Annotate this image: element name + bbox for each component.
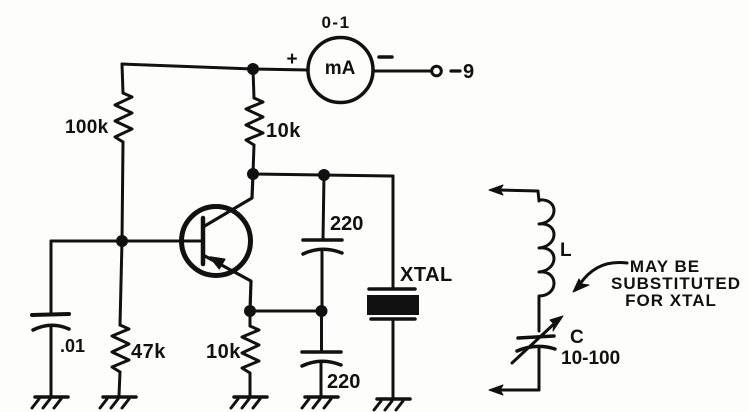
svg-text:47k: 47k — [131, 341, 166, 363]
svg-text:10k: 10k — [206, 341, 241, 363]
svg-text:9: 9 — [463, 61, 474, 83]
node junction base — [116, 235, 128, 247]
ground G1 — [32, 397, 68, 408]
wire tank top lead with arrow — [489, 185, 539, 201]
svg-text:FOR XTAL: FOR XTAL — [625, 291, 717, 310]
capacitor C3 220 (bottom) — [302, 311, 341, 396]
svg-text:100k: 100k — [65, 117, 109, 138]
variable capacitor C4 — [512, 316, 563, 390]
ground G5 — [374, 399, 410, 410]
svg-text:XTAL: XTAL — [400, 264, 453, 286]
wire tank bottom lead with arrow — [489, 385, 539, 395]
annotation arrow (may be substituted) — [573, 262, 627, 292]
wire emitter row — [250, 310, 322, 313]
ground G4 — [302, 397, 338, 408]
label minus — [379, 55, 392, 59]
svg-text:C: C — [570, 327, 584, 348]
svg-text:0-1: 0-1 — [321, 13, 350, 32]
inductor L — [539, 200, 554, 331]
resistor R1 100k — [115, 64, 132, 241]
transistor Q1 — [182, 174, 254, 311]
svg-text:10-100: 10-100 — [561, 348, 620, 369]
svg-text:220: 220 — [330, 213, 363, 235]
svg-text:+: + — [286, 49, 297, 70]
node junction collector row — [247, 168, 259, 180]
wire collector row — [253, 174, 393, 176]
svg-text:L: L — [560, 240, 572, 261]
svg-text:mA: mA — [325, 58, 356, 79]
label -9 — [451, 69, 460, 72]
node junction emitter row left — [244, 305, 256, 317]
wire base to C1 — [50, 241, 53, 314]
wire top rail left — [122, 64, 308, 70]
crystal Y1 XTAL — [367, 176, 419, 398]
ground G2 — [100, 397, 136, 408]
ground G3 — [231, 397, 267, 408]
svg-text:10k: 10k — [266, 120, 301, 142]
wire base — [51, 240, 201, 243]
ammeter M1 — [308, 38, 373, 103]
wire meter to terminal — [373, 70, 431, 73]
capacitor C2 220 (top) — [303, 175, 342, 311]
svg-text:.01: .01 — [60, 336, 85, 356]
svg-text:220: 220 — [327, 371, 360, 393]
resistor R4 10k (bottom) — [242, 311, 259, 396]
resistor R2 10k (top) — [246, 69, 263, 173]
node junction top rail — [247, 63, 259, 75]
resistor R3 47k — [112, 241, 129, 396]
capacitor C1 .01 — [32, 314, 69, 396]
node junction emitter row right — [316, 305, 328, 317]
node junction cap top — [318, 169, 330, 181]
terminal -9 — [432, 66, 442, 76]
